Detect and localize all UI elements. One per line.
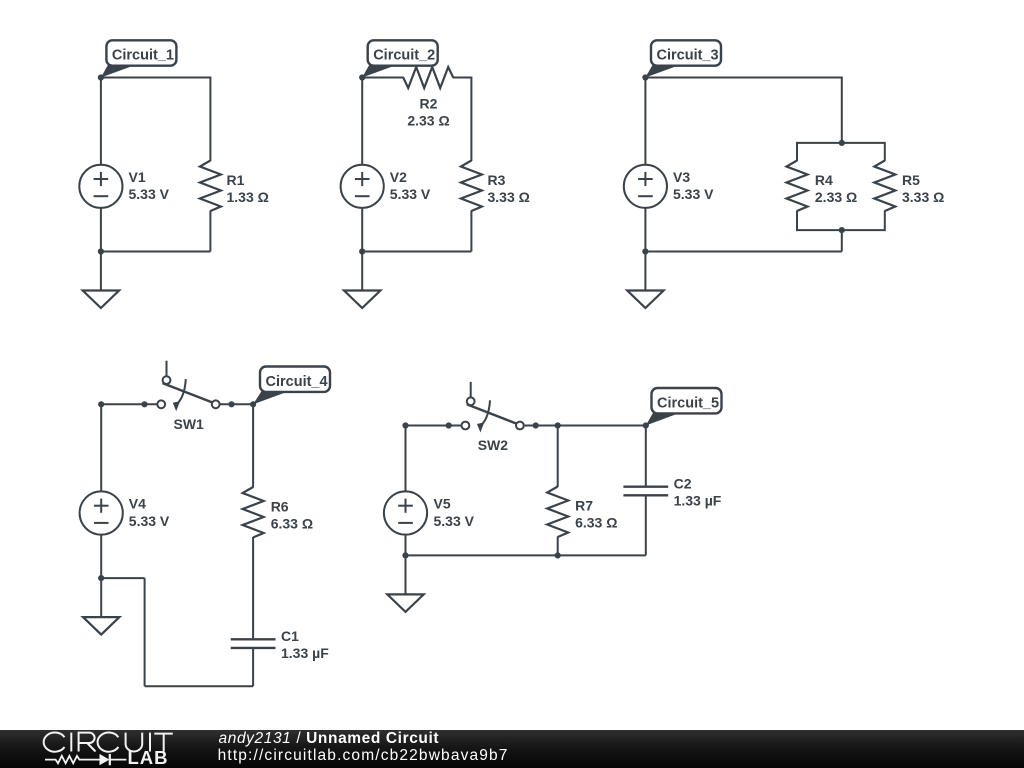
- wire top-right circuit 2: [453, 77, 472, 79]
- wire top circuit 1: [101, 77, 210, 79]
- wire R5 top stub: [884, 142, 886, 161]
- node top-left circuit 4: [98, 401, 104, 407]
- node junction circuit 4: [250, 401, 256, 407]
- footer bar: [0, 730, 1024, 768]
- logo letter T: [154, 733, 173, 735]
- wire C2 top: [645, 426, 647, 487]
- wire left lower circuit 1: [100, 208, 102, 252]
- wire right lower circuit 1: [209, 211, 211, 252]
- node bottom circuit 2: [359, 248, 365, 254]
- wire right upper circuit 2: [470, 77, 472, 162]
- resistor R4: [787, 161, 808, 212]
- wire left riser circuit 4: [144, 578, 146, 686]
- wire top-left circuit 2: [362, 77, 404, 79]
- wire parallel bottom bar: [797, 229, 885, 231]
- wire switch to R7 node circuit 5: [524, 425, 558, 427]
- node bottom circuit 4: [98, 575, 104, 581]
- wire R4 top stub: [796, 142, 798, 161]
- logo letter I2: [149, 733, 151, 752]
- voltage source V2: [341, 165, 384, 208]
- wire bottom circuit 2: [362, 251, 471, 253]
- node C2 top junction: [643, 422, 649, 428]
- voltage source V4: [80, 491, 123, 534]
- wire left upper circuit 3: [644, 78, 646, 166]
- ground circuit 4: [100, 578, 102, 617]
- node parallel bottom: [839, 227, 845, 233]
- node R7 top junction: [555, 422, 561, 428]
- wire R5 bottom stub: [884, 211, 886, 232]
- wire left lower circuit 2: [361, 208, 363, 252]
- wire bottom circuit 1: [101, 251, 210, 253]
- wire R7 node to C2 node: [558, 425, 646, 427]
- wire right lower circuit 2: [470, 211, 472, 252]
- node R7 bottom junction: [555, 552, 561, 558]
- logo letter U: [126, 733, 143, 752]
- label Circuit_5: [646, 412, 681, 425]
- wire left lower circuit 3: [644, 208, 646, 252]
- wire C1 bottom: [252, 648, 254, 686]
- capacitor C1: [231, 638, 276, 640]
- wire right upper circuit 1: [209, 77, 211, 162]
- wire top-left circuit 4: [101, 403, 157, 405]
- resistor R1: [200, 161, 221, 212]
- voltage source V5: [384, 491, 427, 534]
- node bottom circuit 3: [642, 248, 648, 254]
- wire left upper circuit 2: [361, 78, 363, 166]
- node top-left circuit 5: [402, 422, 408, 428]
- wire switch to node circuit 4: [220, 403, 254, 405]
- wire V5 top: [405, 426, 407, 493]
- voltage source V1: [79, 165, 122, 208]
- logo letter C1: [44, 733, 65, 752]
- logo diode: [100, 754, 110, 765]
- wire right drop circuit 3: [841, 77, 843, 143]
- node parallel top: [839, 140, 845, 146]
- wire right riser circuit 3: [841, 230, 843, 251]
- logo letter I1: [70, 733, 72, 752]
- wire V4 bottom: [100, 534, 102, 578]
- wire R6 to C1: [252, 537, 254, 639]
- wire top-left circuit 5: [406, 425, 461, 427]
- footer title line: [219, 731, 440, 747]
- switch SW1: [141, 401, 147, 407]
- wire ground stub circuit 4: [101, 577, 144, 579]
- wire parallel top bar: [797, 142, 885, 144]
- label Circuit_1: [101, 65, 135, 78]
- ground circuit 3: [644, 252, 646, 291]
- node N2 top-left of circuit 2: [359, 74, 365, 80]
- wire R7 top: [557, 426, 559, 488]
- resistor R5: [874, 161, 895, 212]
- wire V5 bottom: [405, 534, 407, 555]
- logo letter C2: [98, 732, 119, 751]
- node bottom circuit 1: [98, 248, 104, 254]
- wire left upper circuit 1: [100, 78, 102, 166]
- node N1 top-left of circuit 1: [98, 74, 104, 80]
- wire V4 top: [100, 404, 102, 492]
- wire bottom circuit 3: [645, 251, 841, 253]
- ground circuit 5: [405, 555, 407, 594]
- footer url line: [218, 748, 509, 764]
- resistor R2: [403, 67, 453, 88]
- wire R4 bottom stub: [796, 211, 798, 232]
- wire R7 bottom: [557, 537, 559, 556]
- wire C2 bottom: [645, 495, 647, 555]
- switch SW2: [446, 422, 452, 428]
- wire R6 top: [252, 404, 254, 487]
- label Circuit_2: [362, 65, 397, 78]
- voltage source V3: [624, 165, 667, 208]
- resistor R3: [461, 161, 482, 212]
- wire bottom circuit 4: [145, 685, 254, 687]
- capacitor C2: [623, 486, 668, 488]
- wire bottom circuit 5: [406, 554, 646, 556]
- wire top circuit 3: [645, 77, 841, 79]
- resistor R6: [243, 487, 264, 538]
- resistor R7: [547, 487, 568, 538]
- label Circuit_4: [253, 391, 289, 405]
- ground circuit 2: [361, 252, 363, 291]
- node bottom circuit 5: [402, 552, 408, 558]
- label Circuit_3: [645, 65, 680, 78]
- logo resistor squiggle: [45, 756, 100, 763]
- ground circuit 1: [100, 252, 102, 291]
- logo letter R: [79, 733, 96, 752]
- node N3 top-left of circuit 3: [642, 74, 648, 80]
